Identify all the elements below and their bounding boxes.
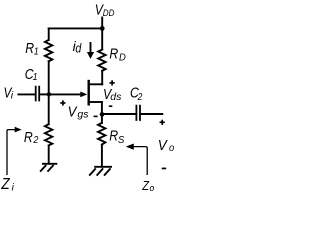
node VDD junction dot <box>100 26 105 31</box>
ground under R2 <box>40 164 57 172</box>
label plus Vo <box>160 120 165 125</box>
label minus Vo <box>162 168 167 170</box>
wire source lead <box>89 101 102 103</box>
gate arrowhead of JFET U1 <box>80 92 87 98</box>
resistor R2 <box>45 124 52 145</box>
resistor RS <box>98 123 105 145</box>
svg-text:o: o <box>150 182 155 193</box>
current id arrow <box>90 42 92 52</box>
svg-text:d: d <box>75 42 81 56</box>
wire R1 top lead <box>48 28 50 40</box>
label Vds <box>103 86 122 103</box>
wire C1 to gate node <box>40 93 49 95</box>
wire top rail <box>49 27 102 29</box>
impedance Zo arrow <box>134 147 148 175</box>
wire drain lead <box>89 83 102 85</box>
svg-text:DD: DD <box>103 7 115 18</box>
gate wire <box>49 93 81 95</box>
svg-text:D: D <box>119 52 126 64</box>
label id <box>73 38 82 55</box>
wire RD bottom to drain <box>101 71 103 85</box>
resistor RD <box>98 50 105 71</box>
label Zi <box>0 176 14 193</box>
wire VDD stub <box>101 18 103 29</box>
capacitor C2 <box>136 106 140 120</box>
label Vo <box>158 137 175 154</box>
wire C2 to output terminal <box>141 113 162 115</box>
label minus Vds <box>109 105 113 107</box>
label Vi <box>4 84 14 101</box>
wire R2 to ground <box>48 145 50 163</box>
svg-text:R: R <box>109 127 118 143</box>
wire source down to node <box>101 102 103 114</box>
svg-text:gs: gs <box>77 108 89 120</box>
label VDD <box>95 1 115 18</box>
label C1 <box>25 66 38 84</box>
svg-text:S: S <box>118 134 125 146</box>
label Vgs <box>68 102 90 120</box>
node source junction dot <box>100 112 105 117</box>
label plus Vds <box>110 80 115 85</box>
svg-text:R: R <box>24 129 33 145</box>
node gate junction dot <box>47 92 51 96</box>
impedance Zi arrow <box>7 130 15 175</box>
wire input lead <box>18 93 35 95</box>
svg-text:2: 2 <box>32 134 38 146</box>
svg-text:1: 1 <box>33 71 38 83</box>
label Zo <box>141 178 154 193</box>
label R1 <box>25 40 38 58</box>
svg-text:Z: Z <box>0 176 10 193</box>
label minus Vgs <box>94 116 98 118</box>
svg-text:V: V <box>158 137 168 154</box>
resistor R1 <box>45 40 52 61</box>
wire source node to C2 <box>102 113 136 115</box>
label C2 <box>130 85 143 103</box>
label RD <box>109 45 125 63</box>
label R2 <box>24 129 39 146</box>
label RS <box>109 127 124 146</box>
wire source node to RS <box>101 114 103 123</box>
svg-text:2: 2 <box>137 92 143 103</box>
label plus Vgs <box>60 100 65 105</box>
svg-text:ds: ds <box>110 91 122 103</box>
svg-text:o: o <box>169 142 174 154</box>
svg-text:R: R <box>109 45 118 61</box>
JFET channel bar <box>87 80 89 106</box>
wire gate node to R2 <box>48 94 50 124</box>
svg-text:Z: Z <box>141 178 149 193</box>
wire R1 bottom to gate node <box>48 61 50 94</box>
svg-text:V: V <box>68 102 78 119</box>
wire RS to ground <box>101 145 103 167</box>
svg-text:R: R <box>25 40 34 56</box>
wire RD top lead <box>101 28 103 49</box>
capacitor C1 <box>36 87 40 101</box>
ground under RS <box>89 167 112 176</box>
svg-text:1: 1 <box>34 46 39 58</box>
